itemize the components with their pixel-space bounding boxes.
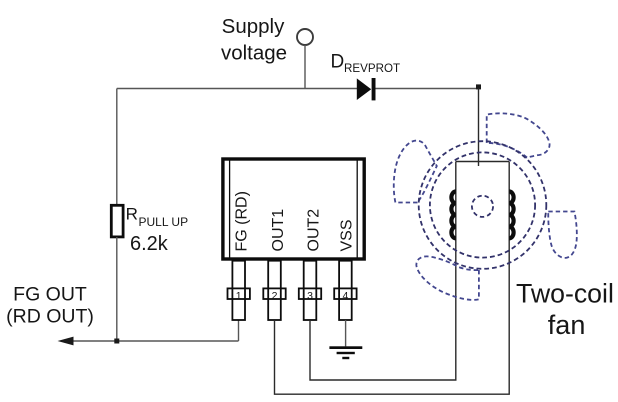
FG OUT label — [6, 284, 94, 328]
rotor top edge — [456, 161, 509, 163]
svg-text:D: D — [331, 51, 345, 72]
wire supply drop — [304, 45, 306, 89]
wire top rail cathode side — [375, 88, 479, 90]
diode DREVPROT — [357, 78, 376, 100]
svg-text:4: 4 — [342, 290, 348, 302]
wire FG OUT line — [62, 340, 239, 342]
svg-text:VSS: VSS — [339, 219, 356, 251]
svg-text:(RD OUT): (RD OUT) — [6, 306, 94, 328]
resistor RPULLUP label — [126, 205, 188, 256]
wire pin1 down — [238, 320, 240, 341]
svg-text:OUT2: OUT2 — [306, 209, 323, 252]
pin 4 — [334, 261, 356, 320]
svg-text:PULL UP: PULL UP — [139, 215, 189, 229]
pin 1 — [228, 261, 250, 320]
op-amp U1 body (driver IC) — [223, 159, 364, 259]
svg-text:FG OUT: FG OUT — [13, 284, 87, 306]
node supply-fan junction — [476, 84, 481, 89]
wire left rail lower — [116, 237, 118, 341]
node FG junction — [114, 339, 119, 344]
ground — [329, 346, 362, 359]
wire pin2 to right coil — [275, 162, 510, 395]
svg-text:voltage: voltage — [221, 42, 287, 65]
wire top rail anode side — [117, 88, 358, 90]
svg-text:1: 1 — [236, 290, 242, 302]
fan blade top — [487, 113, 550, 157]
fan blade left — [394, 141, 437, 203]
svg-text:2: 2 — [272, 290, 278, 302]
wire pin4 to ground — [345, 320, 347, 346]
wire pin3 to left coil — [310, 162, 456, 381]
fan blade bottom — [416, 256, 479, 299]
fan outer ring — [419, 141, 547, 269]
fan blade right — [548, 212, 577, 258]
wire left rail upper — [116, 89, 118, 206]
pin 3 — [299, 261, 321, 320]
coil right — [509, 192, 513, 239]
coil left — [451, 192, 455, 239]
svg-text:FG (RD): FG (RD) — [234, 191, 251, 251]
svg-text:Supply: Supply — [222, 15, 285, 38]
svg-text:Two-coil: Two-coil — [516, 279, 614, 309]
pin 2 — [263, 261, 285, 320]
fan hub — [472, 196, 493, 217]
svg-text:fan: fan — [548, 310, 586, 340]
diode DREVPROT label — [331, 51, 401, 75]
svg-text:OUT1: OUT1 — [270, 209, 287, 252]
supply terminal — [297, 29, 313, 45]
fan inner ring — [430, 152, 535, 257]
wire junction to rotor — [478, 89, 480, 167]
FG OUT arrow head — [58, 337, 74, 346]
two-coil fan label — [516, 279, 614, 341]
svg-text:3: 3 — [307, 290, 313, 302]
supply voltage label — [221, 15, 287, 65]
resistor RPULLUP — [111, 205, 123, 237]
svg-text:REVPROT: REVPROT — [344, 62, 400, 75]
svg-text:6.2k: 6.2k — [130, 233, 169, 255]
svg-text:R: R — [126, 205, 138, 224]
